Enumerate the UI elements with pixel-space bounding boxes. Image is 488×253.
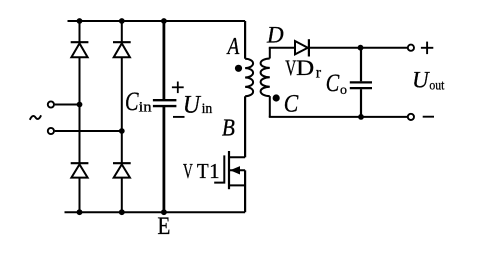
wire column2 lower (D4 to bottom rail) [121, 178, 123, 213]
wire Cin column lower [162, 107, 165, 213]
plus sign at Cin [172, 82, 184, 94]
svg-text:E: E [157, 211, 170, 240]
wire Co column upper [360, 48, 362, 82]
diode V1 (bridge top-left) [71, 42, 89, 57]
junction dot top rail at column1 [77, 18, 83, 24]
diode V3 (bridge bottom-left) [71, 163, 89, 177]
svg-text:C: C [326, 70, 340, 97]
junction dot AC top at column1 [77, 102, 83, 108]
svg-text:U: U [412, 67, 430, 92]
channel bar [228, 151, 230, 189]
diode V4 (bridge bottom-right) [113, 163, 131, 177]
AC source tilde symbol [30, 115, 41, 120]
source lead [229, 184, 245, 186]
MOSFET body arrow [230, 166, 240, 174]
body lead [229, 169, 245, 171]
wire column2 middle (D2 to D4) [121, 57, 123, 163]
wire primary column lower (winding to MOSFET drain) [244, 96, 246, 157]
wire top rail [68, 20, 246, 22]
svg-text:T: T [197, 159, 209, 183]
svg-text:V: V [183, 159, 193, 183]
wire column2 upper (rail to D2) [121, 21, 123, 42]
wire AC input upper lead [55, 104, 80, 106]
terminal output + (open circle) [408, 45, 414, 51]
wire secondary top (to diode) [269, 47, 294, 49]
minus sign at Cin [173, 116, 185, 118]
plus sign at output [421, 42, 433, 55]
wire column1 upper (rail to D1) [79, 21, 81, 42]
wire Co column lower [360, 89, 362, 117]
svg-text:U: U [183, 91, 202, 118]
transformer primary winding [245, 59, 253, 97]
wire MOSFET source to bottom rail [244, 170, 246, 212]
svg-text:r: r [316, 64, 322, 81]
svg-text:D: D [266, 23, 284, 48]
junction dot bottom rail at column2 [119, 209, 125, 215]
junction dot output top at Co [358, 45, 364, 51]
primary polarity dot [235, 65, 242, 72]
gate bar with lead [214, 155, 224, 182]
terminal AC top (open circle) [48, 101, 54, 107]
transformer secondary winding [261, 59, 270, 97]
wire bottom rail [65, 211, 246, 213]
junction dot AC bottom at column2 [119, 128, 125, 134]
junction dot bottom rail at column1 [77, 209, 83, 215]
minus sign at output [423, 116, 434, 118]
diode V2 (bridge top-right) [113, 42, 131, 57]
capacitor Cin plates [153, 100, 177, 106]
junction dot output bottom at Co [358, 114, 364, 120]
junction dot top rail at column2 [119, 18, 125, 24]
wire secondary left vertical [269, 48, 271, 117]
svg-text:o: o [340, 83, 347, 98]
wire output top (diode to + terminal) [310, 47, 407, 49]
wire column1 middle (D1 to D3) [79, 57, 81, 163]
svg-text:V: V [285, 55, 296, 80]
wire Cin column upper [162, 21, 165, 100]
svg-text:B: B [222, 116, 235, 142]
wire primary column upper (rail to winding) [244, 21, 246, 59]
terminal output - (open circle) [408, 114, 414, 120]
secondary polarity dot [273, 94, 280, 101]
capacitor Co plates [350, 82, 372, 88]
svg-text:in: in [139, 100, 153, 116]
terminal AC bottom (open circle) [48, 128, 54, 134]
svg-text:D: D [296, 55, 314, 80]
wire output bottom [269, 116, 407, 118]
svg-text:C: C [125, 87, 139, 116]
MOSFET VT1 [214, 151, 245, 189]
svg-text:1: 1 [209, 159, 220, 183]
wire column1 lower (D3 to bottom rail) [79, 178, 81, 213]
svg-text:out: out [429, 78, 444, 93]
diode VDr [295, 39, 309, 56]
drain lead [229, 156, 245, 158]
svg-text:A: A [226, 34, 240, 60]
svg-text:in: in [202, 101, 213, 117]
junction dot bottom rail at Cin column [161, 209, 167, 215]
wire AC input lower lead [55, 130, 122, 132]
junction dot top rail at Cin column [161, 18, 167, 24]
svg-text:C: C [284, 91, 299, 118]
